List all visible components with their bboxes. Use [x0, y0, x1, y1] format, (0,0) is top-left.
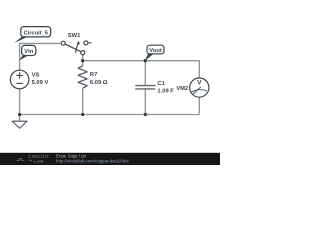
wire R7 bottom lead: [82, 88, 84, 115]
wire VM2 bottom lead: [198, 97, 200, 114]
svg-text:SW1: SW1: [68, 33, 81, 39]
wire VS bottom to ground rail: [19, 89, 21, 115]
svg-text:LAB: LAB: [34, 159, 44, 164]
svg-text:C1: C1: [157, 81, 165, 87]
switch SW1: [61, 41, 91, 55]
blade: [65, 44, 81, 52]
svg-text:Vout: Vout: [149, 48, 162, 54]
label C1 value: [157, 81, 174, 94]
resistor R7: [78, 66, 87, 88]
svg-text:5.09 V: 5.09 V: [32, 80, 49, 86]
node label Circuit_5 callout: [14, 27, 50, 43]
junction dot C1 top: [144, 59, 147, 62]
junction dot R7 bottom: [81, 113, 84, 116]
svg-text:VM2: VM2: [176, 86, 188, 92]
junction dot switch pole / R7: [81, 59, 84, 62]
wire switch pole down to junction: [82, 55, 84, 61]
svg-text:Circuit_5: Circuit_5: [24, 31, 48, 37]
wire top-left rail from node Vin corner to SW1 left throw: [20, 43, 61, 70]
node label Vout callout: [145, 45, 164, 61]
actuator arrow: [75, 43, 78, 53]
svg-text:http://circuitlab.com/c/gppeuk: http://circuitlab.com/c/gppeuked1/4tut: [56, 159, 130, 164]
svg-text:R7: R7: [90, 72, 97, 78]
label VS value: [32, 73, 49, 87]
wire mid rail from switch pole junction to voltmeter: [83, 61, 200, 78]
junction dot C1 bottom: [144, 113, 147, 116]
right throw stub: [88, 42, 92, 44]
wire bottom ground rail: [20, 114, 200, 116]
watermark bar: [0, 153, 220, 165]
svg-text:6.09 Ω: 6.09 Ω: [90, 80, 108, 86]
svg-text:Vin: Vin: [24, 49, 33, 55]
svg-text:VS: VS: [32, 73, 40, 79]
wire R7 top lead: [82, 61, 84, 66]
watermark logo CircuitLab: [28, 154, 49, 164]
voltmeter VM2: [190, 78, 209, 97]
svg-text:V: V: [197, 79, 202, 86]
node label Vin callout: [19, 45, 36, 60]
wire C1 top lead: [144, 61, 146, 85]
ground: [12, 121, 27, 128]
watermark text: [56, 154, 130, 164]
wire ground stub: [19, 115, 21, 122]
wire C1 bottom lead: [144, 89, 146, 114]
voltage source VS: [10, 70, 29, 89]
label R7 value: [90, 72, 108, 86]
capacitor C1: [135, 86, 155, 89]
junction dot ground: [18, 113, 21, 116]
svg-text:1.09 F: 1.09 F: [157, 88, 174, 94]
